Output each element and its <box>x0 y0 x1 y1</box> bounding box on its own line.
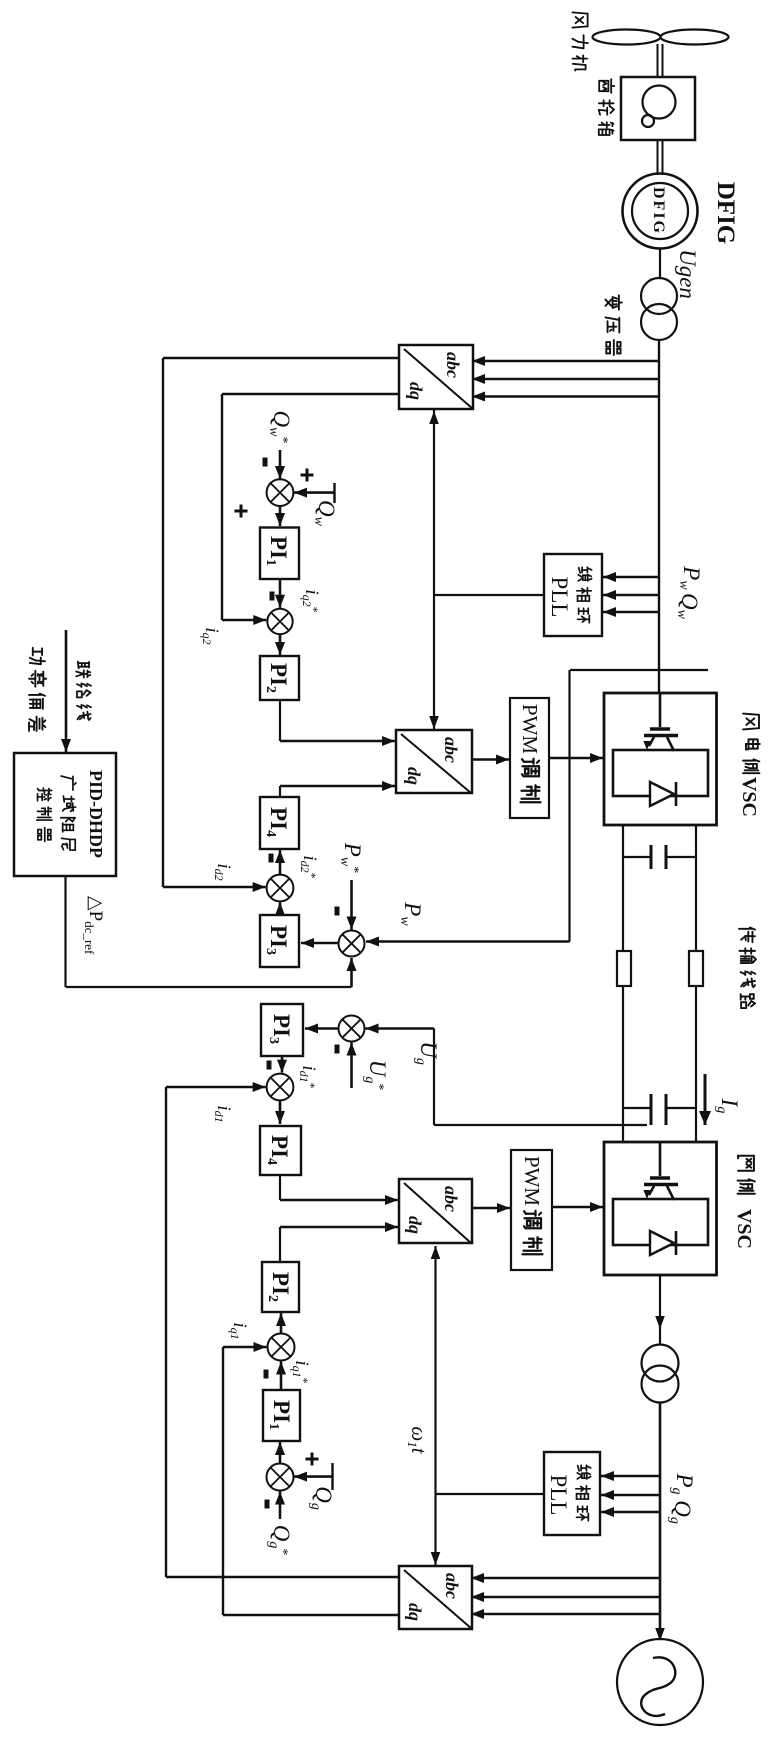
dc rail top wire <box>695 825 697 1142</box>
svg-text:Pw: Pw <box>397 901 425 926</box>
label PwQw <box>674 565 704 619</box>
PLL tap wires <box>603 572 658 617</box>
wire Qw* into sum S1 <box>263 450 286 479</box>
DFIG generator circle <box>623 174 698 249</box>
label 风力机 <box>572 12 588 70</box>
wire VSC to transformer with arrow <box>655 1275 665 1344</box>
svg-text:Ugen: Ugen <box>675 249 700 299</box>
wire S6 to PI4b <box>279 1101 282 1125</box>
svg-text:Ig: Ig <box>714 1098 742 1114</box>
svg-text:dq: dq <box>405 1216 425 1234</box>
capacitor C1 <box>623 845 696 869</box>
line resistor R1 <box>689 951 703 986</box>
label PgQg <box>667 1472 697 1523</box>
label Ig <box>714 1098 742 1114</box>
three-phase tap wires to abc-dq block U1 <box>472 356 658 402</box>
wire U5 to PWM1 <box>472 758 509 761</box>
id1 feedback wire <box>166 1082 399 1577</box>
label iq1 <box>228 1322 250 1339</box>
summing junction S1 <box>235 479 294 517</box>
svg-text:PI3: PI3 <box>263 925 291 955</box>
svg-text:PI2: PI2 <box>263 663 291 693</box>
capacitor C2 <box>623 1094 696 1125</box>
label Qw* reference <box>266 411 294 444</box>
theta wire U1-U2-U5 <box>429 410 544 730</box>
svg-text:Qg: Qg <box>667 1500 695 1524</box>
svg-text:iq1*: iq1* <box>290 1360 312 1383</box>
label DFIG <box>712 182 739 245</box>
label iq2* <box>300 589 322 612</box>
dq-abc transform block U5 <box>396 730 472 793</box>
wire PI2 to U5 <box>280 700 395 746</box>
PLL block 锁相环 U2 <box>544 554 602 636</box>
svg-text:VSC: VSC <box>738 777 760 817</box>
label 联络线 <box>76 662 91 721</box>
svg-text:DFIG: DFIG <box>712 182 739 245</box>
Qg input wire with bar <box>294 1453 333 1491</box>
label id2* <box>298 855 320 878</box>
svg-text:iq2: iq2 <box>200 627 222 644</box>
PWM modulator 2 <box>511 1150 552 1270</box>
dc rail bottom wire <box>622 825 624 1142</box>
wire PWM2 to VSC2 <box>552 1206 603 1209</box>
svg-text:PID-DHDP: PID-DHDP <box>86 770 106 858</box>
svg-text:dq: dq <box>404 767 424 785</box>
label Qw <box>311 500 339 527</box>
wire PI1b to S7 <box>280 1362 283 1391</box>
svg-text:Qw: Qw <box>311 500 339 527</box>
three-phase tap wires to abc-dq block U4 <box>471 1573 659 1619</box>
svg-text:PI1: PI1 <box>266 1400 294 1430</box>
label Pw <box>397 901 425 926</box>
svg-text:Qw: Qw <box>674 593 702 620</box>
svg-text:PLL: PLL <box>546 1475 571 1516</box>
label Qg* <box>266 1525 294 1556</box>
svg-text:△Pdc_ref: △Pdc_ref <box>82 896 106 955</box>
svg-text:PI2: PI2 <box>265 1272 293 1302</box>
IGBT with diode inside wind-side VSC <box>613 693 708 806</box>
svg-text:iq1: iq1 <box>228 1322 250 1339</box>
wire S3 to PI4 <box>269 850 286 875</box>
PI2b block <box>262 1262 299 1312</box>
grid transformer <box>642 1345 679 1403</box>
label Pw* <box>337 842 365 873</box>
label 网侧VSC <box>733 1156 755 1249</box>
label id2 <box>212 863 234 880</box>
wire Qg* into S8 <box>279 1492 282 1520</box>
svg-text:id1: id1 <box>212 1105 234 1122</box>
iq2 feedback wire <box>222 394 399 625</box>
svg-text:id1*: id1* <box>297 1065 319 1088</box>
svg-text:abc: abc <box>441 1186 461 1212</box>
input arrow 联络线功率偏差 <box>65 630 68 752</box>
transformer 变压器 <box>641 278 677 340</box>
svg-text:abc: abc <box>441 737 461 763</box>
svg-text:Qw*: Qw* <box>266 411 294 444</box>
summing junction S2 <box>267 609 292 634</box>
wire S8 to PI1b <box>279 1442 282 1464</box>
wind-side VSC box <box>604 693 717 825</box>
svg-text:VSC: VSC <box>733 1209 755 1249</box>
svg-text:ω1t: ω1t <box>405 1426 431 1454</box>
svg-text:Qg: Qg <box>308 1486 336 1510</box>
line resistor R2 <box>617 951 631 986</box>
wire S7 to PI2b <box>264 1313 287 1379</box>
summing junction S8 <box>265 1464 294 1509</box>
svg-text:Pw: Pw <box>676 565 704 590</box>
label Ug* <box>362 1060 390 1091</box>
PWM modulator 1 <box>510 698 549 818</box>
abc-dq transform block U1 <box>399 345 473 409</box>
svg-text:DFIG: DFIG <box>650 187 667 235</box>
PLL block 锁相环 U3 <box>544 1452 600 1535</box>
label iq1* <box>290 1360 312 1383</box>
svg-text:abc: abc <box>443 352 463 378</box>
svg-text:PI4: PI4 <box>264 1135 292 1165</box>
gearbox 齿轮箱 box <box>621 77 695 140</box>
id2 feedback wire <box>163 358 399 892</box>
summing junction S7 <box>268 1334 295 1361</box>
turbine shaft <box>658 44 663 78</box>
iq1 feedback wire <box>223 1342 399 1615</box>
label id1 <box>212 1105 234 1122</box>
svg-text:PI4: PI4 <box>263 807 291 837</box>
svg-text:PWM: PWM <box>518 704 542 755</box>
label 风电侧VSC <box>738 714 760 817</box>
PI1b block <box>263 1390 300 1441</box>
IGBT with diode inside grid-side VSC <box>613 1142 708 1255</box>
svg-text:PI1: PI1 <box>263 536 291 566</box>
grid source circle <box>617 1639 703 1725</box>
wire U6 to PWM2 <box>472 1207 510 1210</box>
wire Pw sum to PI3 <box>301 942 338 945</box>
abc-dq transform block U4 <box>399 1566 472 1629</box>
svg-text:dq: dq <box>405 1603 425 1621</box>
label omega1t <box>405 1426 431 1454</box>
main bus wire <box>658 340 660 693</box>
grid-side VSC box <box>604 1142 717 1275</box>
dPdc_ref wire <box>66 876 357 987</box>
dq-abc transform block U6 <box>399 1179 472 1243</box>
Qw input wire with bar <box>294 469 335 504</box>
svg-text:Ug*: Ug* <box>362 1060 390 1091</box>
summing junction S4 Pw <box>339 931 365 957</box>
svg-text:Ug: Ug <box>413 1041 441 1065</box>
label Ug <box>413 1041 441 1065</box>
PI4b block <box>260 1126 301 1175</box>
label 变压器 <box>605 295 621 355</box>
label iq2 <box>200 627 222 644</box>
svg-text:id2*: id2* <box>298 855 320 878</box>
svg-text:id2: id2 <box>212 863 234 880</box>
wire DFIG to transformer <box>659 249 661 279</box>
wire Pw* into S4 <box>335 880 357 930</box>
wire Ug* into S5 <box>335 1043 357 1089</box>
wind turbine blades <box>593 30 729 45</box>
svg-text:PWM: PWM <box>520 1156 544 1207</box>
svg-text:abc: abc <box>442 1573 462 1599</box>
svg-text:Pw*: Pw* <box>337 842 365 873</box>
svg-text:dq: dq <box>406 382 426 400</box>
wire S1 to PI1 <box>279 506 282 526</box>
wire S5 to PI3b <box>305 1027 338 1030</box>
Pw tap bar node <box>570 669 708 671</box>
wire PI2b to U6 <box>280 1222 398 1262</box>
Ug tap wire from dc link <box>366 1024 648 1126</box>
label 功率偏差 <box>29 648 46 731</box>
shaft gearbox to DFIG <box>658 140 663 175</box>
label 齿轮箱 <box>599 79 615 135</box>
label Qg <box>308 1486 336 1510</box>
summing junction S6 <box>267 1074 294 1101</box>
wire PI3b to S6 <box>267 1056 288 1073</box>
wire PI3 to S3 <box>279 902 282 915</box>
summing junction S5 Ug <box>339 1016 365 1042</box>
PI3b block <box>261 1004 303 1056</box>
Pw feedback wire <box>366 670 570 947</box>
svg-text:Pg: Pg <box>669 1472 697 1494</box>
label 传输线路 <box>739 928 756 1009</box>
wire PI4b to U6 <box>280 1175 398 1205</box>
PID-DHDP wide-area damping controller box <box>14 753 116 876</box>
PI3 block <box>260 915 299 967</box>
label id1* <box>297 1065 319 1088</box>
label Ugen <box>675 249 700 299</box>
wire transformer to grid with arrow <box>655 1403 665 1642</box>
svg-text:iq2*: iq2* <box>300 589 322 612</box>
PI4 block <box>260 797 299 849</box>
Ig current arrow <box>699 1074 711 1125</box>
summing junction S3 <box>267 875 294 902</box>
PI2 block <box>260 656 299 700</box>
PLL2 tap wires <box>601 1471 659 1517</box>
svg-text:PLL: PLL <box>547 577 572 618</box>
wire PI4 to U5 <box>280 781 395 797</box>
PI1 block <box>260 528 299 580</box>
label dPdc_ref <box>82 896 106 955</box>
theta wire U3-U4 with omega1t <box>431 1246 544 1565</box>
wire S2 to PI2 <box>279 634 282 655</box>
svg-text:Qg*: Qg* <box>266 1525 294 1556</box>
svg-text:PI3: PI3 <box>266 1014 294 1044</box>
wire PI1 to S2 <box>270 579 286 608</box>
wire PWM1 to VSC <box>549 757 603 760</box>
